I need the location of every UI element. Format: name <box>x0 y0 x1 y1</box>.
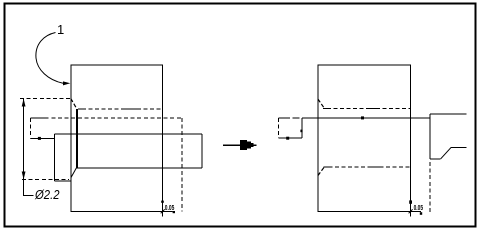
small dimension left: block edge extension below <box>162 211 164 216</box>
svg-text:0.05: 0.05 <box>165 203 175 212</box>
svg-text:0.05: 0.05 <box>414 203 424 212</box>
pin head rect right fig: right edge <box>301 118 303 138</box>
pin top edge <box>55 133 203 135</box>
pin head left face <box>54 134 56 181</box>
phantom bottom segment with drag point <box>30 137 54 139</box>
small dimension right: oblique tick <box>409 209 413 213</box>
pin head rect right fig: left edge dashed <box>277 118 279 138</box>
svg-text:1: 1 <box>57 22 64 37</box>
dimension arrow down <box>22 172 26 180</box>
bore top chamfer (dashed) <box>71 99 77 109</box>
drag point dot <box>38 137 41 140</box>
bore bottom hidden line right fig (dashed) <box>323 166 410 168</box>
big arrow tail <box>223 144 241 146</box>
bore top hidden line (dashed) <box>78 108 163 110</box>
phantom left edge (dashed) <box>29 118 31 138</box>
pin head drag dot right fig <box>286 137 289 140</box>
tool bottom edge <box>430 158 441 160</box>
small dimension right: block edge extension below <box>410 211 412 216</box>
small dimension right: end tick <box>420 212 422 215</box>
small dimension left: extent line continuation <box>163 210 173 212</box>
pin bottom edge <box>76 167 202 169</box>
tool left face <box>429 114 431 159</box>
pin axis line right fig <box>302 117 430 119</box>
pin head rect right fig: bottom edge <box>278 137 302 139</box>
svg-text:Ø2.2: Ø2.2 <box>34 187 60 202</box>
tool step diagonal <box>441 147 452 159</box>
pin flange bottom chamfer <box>71 168 77 178</box>
dimension line vertical <box>23 99 25 180</box>
phantom top line (dashed) <box>30 117 48 119</box>
pin head rect right fig: small tick on right edge <box>300 130 302 133</box>
axis point dot right fig <box>361 116 364 119</box>
dimension extension line bottom (dashed) <box>22 179 69 181</box>
leader arc from callout 1 <box>36 33 63 84</box>
tool face extension (dashed) <box>429 162 431 212</box>
dimension arrow up <box>22 99 26 107</box>
pin flange face (heavy) <box>76 109 78 168</box>
pin head bottom <box>55 180 71 182</box>
small dimension left: tick mark on extension <box>161 201 164 203</box>
small dimension left: oblique tick <box>161 209 165 213</box>
pin head rect right fig: top edge dashed <box>278 117 290 119</box>
tool top edge <box>430 113 467 115</box>
block (left figure) <box>71 65 163 211</box>
pin right face <box>201 134 203 168</box>
phantom right extension (dashed) <box>181 118 183 212</box>
tool step edge <box>451 146 466 148</box>
small dimension right: extent line continuation <box>411 210 421 212</box>
bore top hidden line right fig (dashed) <box>323 107 411 109</box>
dimension leader to label <box>24 180 34 196</box>
leader arrowhead <box>63 81 70 85</box>
bore top chamfer right fig (dashed) <box>318 99 324 108</box>
big arrow head <box>240 140 257 150</box>
small dimension right: bold tick on extension <box>409 200 412 203</box>
small dimension left: end tick <box>173 211 175 213</box>
block (right figure) <box>318 65 411 211</box>
dimension extension line top (dashed) <box>20 98 71 100</box>
bore bottom chamfer right fig (dashed) <box>318 167 324 175</box>
